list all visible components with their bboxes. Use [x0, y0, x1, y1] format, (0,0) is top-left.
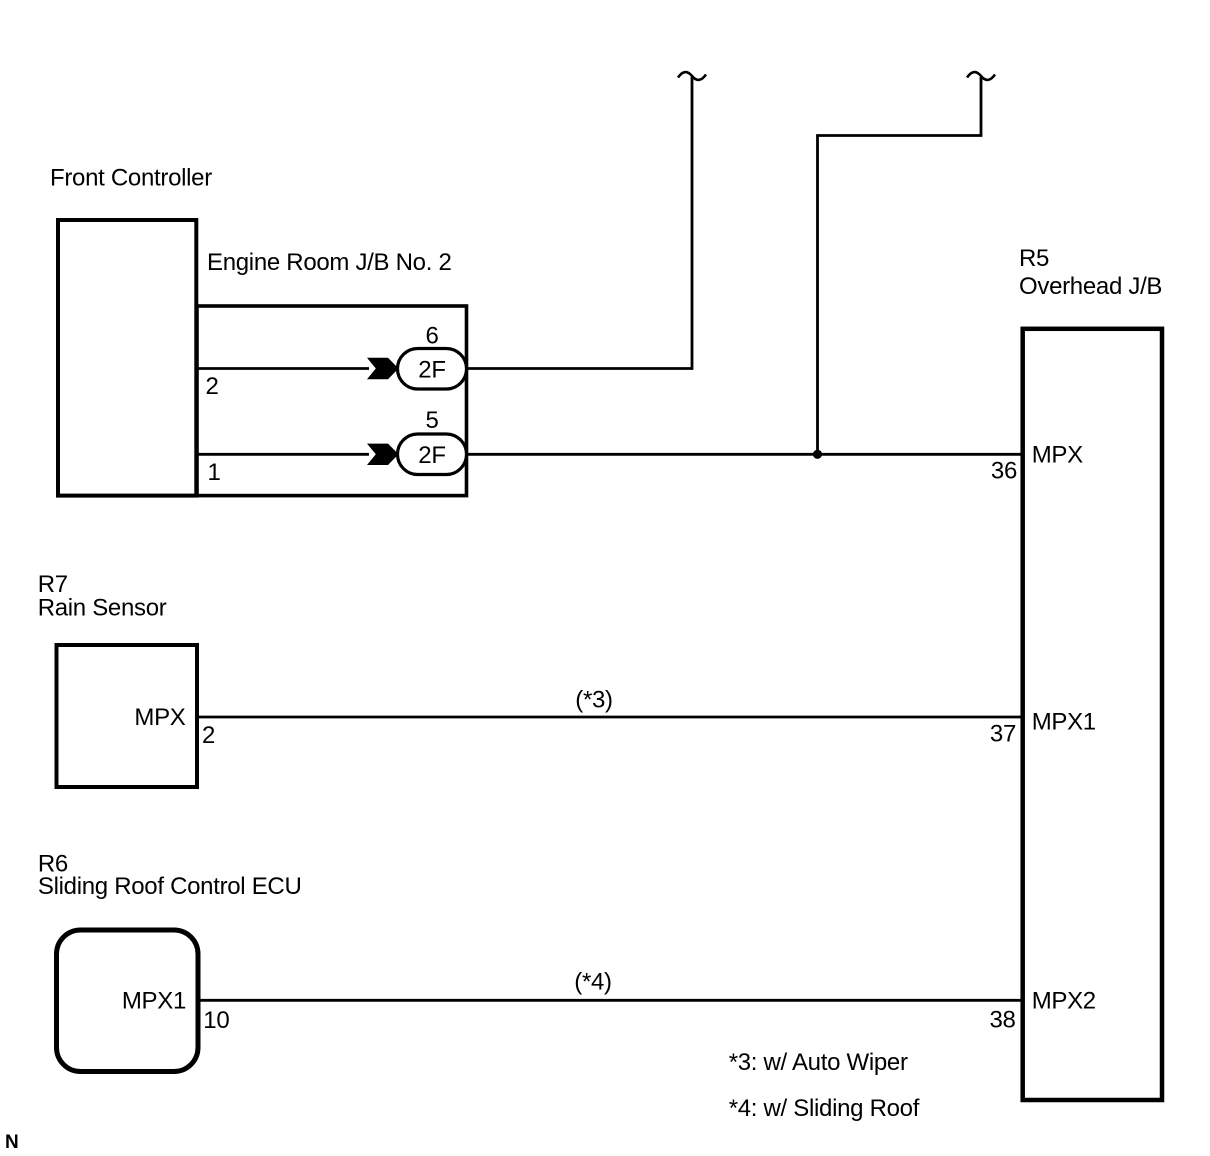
svg-text:6: 6 — [425, 323, 438, 350]
svg-text:Front Controller: Front Controller — [50, 164, 212, 191]
wire pill1 right then up to break — [467, 77, 693, 369]
svg-text:*4: w/ Sliding Roof: *4: w/ Sliding Roof — [729, 1095, 920, 1122]
box Engine Room J/B No. 2 — [197, 306, 467, 496]
junction dot — [813, 450, 822, 459]
svg-text:2F: 2F — [418, 442, 445, 469]
svg-text:(*4): (*4) — [574, 969, 611, 996]
connector arrow 1 — [367, 358, 399, 379]
fuse 2F pill 2 — [398, 434, 467, 475]
break symbol left — [678, 72, 706, 80]
svg-text:R5: R5 — [1019, 245, 1049, 272]
wire R6 pin10 to R5 pin 38 — [198, 999, 1023, 1002]
svg-text:2: 2 — [202, 722, 215, 749]
svg-text:2: 2 — [206, 373, 219, 400]
svg-text:38: 38 — [989, 1007, 1015, 1034]
svg-text:5: 5 — [425, 407, 438, 434]
connector arrow 2 — [367, 444, 399, 465]
break symbol right — [967, 72, 995, 80]
svg-text:MPX2: MPX2 — [1032, 988, 1096, 1015]
wire pin2 to arrow — [197, 367, 369, 370]
svg-text:MPX1: MPX1 — [1032, 709, 1096, 736]
svg-text:MPX1: MPX1 — [122, 987, 186, 1014]
fuse 2F pill 1 — [398, 349, 467, 390]
box R5 Overhead J/B — [1023, 329, 1162, 1100]
box R7 Rain Sensor — [57, 645, 198, 787]
svg-text:*3: w/ Auto Wiper: *3: w/ Auto Wiper — [729, 1049, 908, 1076]
svg-text:1: 1 — [208, 459, 221, 486]
wire R7 pin2 to R5 pin 37 — [197, 716, 1023, 719]
svg-text:36: 36 — [991, 458, 1017, 485]
svg-text:MPX: MPX — [134, 704, 185, 731]
wire pill2 right to R5 pin 36 — [467, 453, 1023, 456]
svg-text:37: 37 — [990, 721, 1016, 748]
svg-text:Sliding Roof Control ECU: Sliding Roof Control ECU — [38, 873, 302, 900]
svg-text:MPX: MPX — [1032, 441, 1083, 468]
svg-text:Overhead J/B: Overhead J/B — [1019, 273, 1162, 300]
wire junction up and over to break — [818, 77, 982, 454]
svg-text:N: N — [5, 1132, 19, 1153]
box R6 Sliding Roof Control ECU — [57, 930, 199, 1072]
wire pin1 to arrow — [197, 453, 369, 456]
svg-text:Engine Room J/B No. 2: Engine Room J/B No. 2 — [207, 249, 452, 276]
svg-text:2F: 2F — [418, 356, 445, 383]
box Front Controller — [58, 220, 196, 496]
svg-text:(*3): (*3) — [575, 687, 612, 714]
svg-text:10: 10 — [203, 1007, 229, 1034]
svg-text:Rain Sensor: Rain Sensor — [38, 595, 167, 622]
